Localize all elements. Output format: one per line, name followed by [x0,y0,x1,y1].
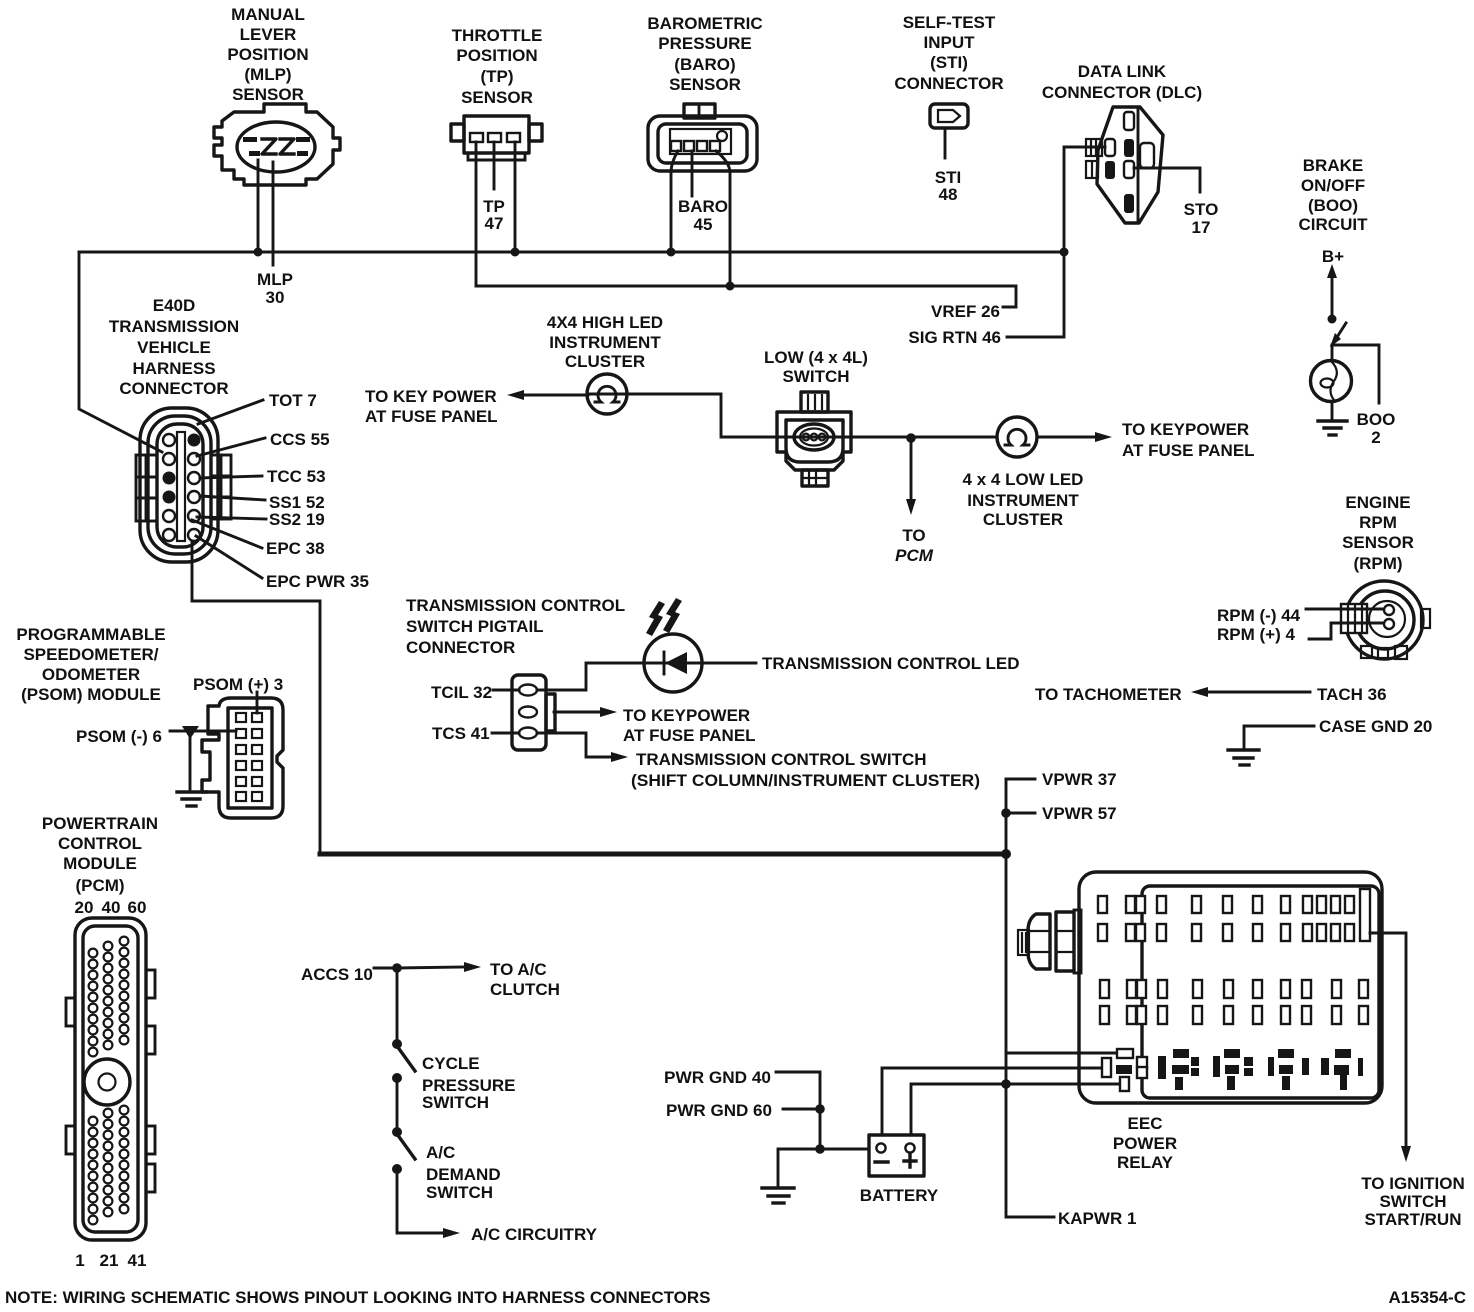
wire: junction to battery [820,1148,869,1151]
label: THROTTLE POSITION (TP) SENSOR [452,26,543,107]
svg-text:PSOM (+) 3: PSOM (+) 3 [193,675,283,694]
wire: DLC left pin feed [1007,147,1105,337]
svg-text:(RPM): (RPM) [1353,554,1402,573]
wire: PSOM (-) 6 lead [170,730,236,733]
svg-text:TO A/C: TO A/C [490,960,547,979]
connector: TCS pigtail connector [512,675,555,750]
svg-text:RPM (-) 44: RPM (-) 44 [1217,606,1301,625]
wire: bus left drop to E4OD connector [79,252,162,452]
pin: E4OD row3 right [188,472,200,484]
wire: PSOM (+) 3 drop [256,692,259,713]
wire: relay to ignition switch [1370,933,1411,1162]
svg-text:41: 41 [128,1251,147,1270]
svg-text:EPC PWR 35: EPC PWR 35 [266,572,369,591]
wire: STI stub [944,128,947,158]
label: TO A/C CLUTCH [490,960,560,999]
svg-text:(BARO): (BARO) [674,55,735,74]
svg-text:ON/OFF: ON/OFF [1301,176,1365,195]
svg-text:SENSOR: SENSOR [461,88,533,107]
wire: TOT 7 leader [198,400,263,424]
wire: TP left pin down to lower bus [475,142,478,286]
label: ENGINE RPM SENSOR (RPM) [1342,493,1414,573]
svg-text:RPM (+) 4: RPM (+) 4 [1217,625,1295,644]
svg-text:CLUSTER: CLUSTER [565,352,645,371]
svg-text:VEHICLE: VEHICLE [137,338,211,357]
wire: B+ arrow up [1327,264,1337,324]
node: battery negative junction [815,1144,825,1154]
wire: to A/C circuitry arrow [397,1169,460,1238]
connector: DLC symbol [1086,107,1163,223]
svg-text:CYCLE: CYCLE [422,1054,480,1073]
label: POWERTRAIN CONTROL MODULE (PCM) [42,814,158,917]
svg-text:BRAKE: BRAKE [1303,156,1363,175]
label: 4 x 4 LOW LED INSTRUMENT CLUSTER [963,470,1084,529]
svg-text:(TP): (TP) [480,67,513,86]
label: MANUAL LEVER POSITION (MLP) SENSOR [227,5,308,104]
svg-text:TO KEYPOWER: TO KEYPOWER [623,706,750,725]
wire: battery negative to relay [882,1068,1103,1135]
svg-text:MANUAL: MANUAL [231,5,305,24]
svg-text:TO IGNITION: TO IGNITION [1361,1174,1465,1193]
svg-text:PROGRAMMABLE: PROGRAMMABLE [16,625,165,644]
label: BAROMETRIC PRESSURE (BARO) SENSOR [647,14,762,94]
label: STO 17 [1184,200,1219,237]
svg-text:SS2 19: SS2 19 [269,510,325,529]
svg-text:PWR GND 60: PWR GND 60 [666,1101,772,1120]
svg-text:CIRCUIT: CIRCUIT [1299,215,1369,234]
svg-text:INSTRUMENT: INSTRUMENT [967,491,1079,510]
svg-text:SWITCH: SWITCH [1379,1192,1446,1211]
switch: BOO brake switch blade [1330,323,1346,347]
label: BOO 2 [1357,410,1396,447]
svg-text:DATA LINK: DATA LINK [1078,62,1167,81]
node: BARO upper bus junction [667,248,676,257]
svg-text:(BOO): (BOO) [1308,196,1358,215]
wire: VPWR vertical trunk [1006,779,1054,1217]
wire: STO 17 from DLC [1134,168,1200,192]
svg-text:SENSOR: SENSOR [1342,533,1414,552]
connector: PCM 60-pin connector [66,918,155,1240]
wire: MLP 30 stub [272,162,275,265]
wire: SS1 52 leader [200,496,265,500]
lamp: 4x4 low LED indicator [997,417,1037,457]
ground: battery ground [762,1188,794,1203]
wire: upper signal bus [79,251,1064,254]
pin: E4OD row2 right [188,453,200,465]
svg-text:AT FUSE PANEL: AT FUSE PANEL [365,407,498,426]
wire: SS2 19 leader [197,517,266,519]
svg-text:TCS 41: TCS 41 [432,724,490,743]
wire: EPC PWR run to VPWR bus [192,541,320,853]
svg-text:RELAY: RELAY [1117,1153,1174,1172]
label: PROGRAMMABLE SPEEDOMETER/ODOMETER (PSOM) MODULE [16,625,165,704]
ground: case ground [1228,750,1259,765]
switch: LOW 4x4L switch symbol [777,392,851,486]
svg-text:CONNECTOR (DLC): CONNECTOR (DLC) [1042,83,1202,102]
wire: PSOM ground drop [189,735,192,790]
svg-text:TCIL 32: TCIL 32 [431,683,492,702]
svg-text:BOO: BOO [1357,410,1396,429]
label: TO IGNITION SWITCH START/RUN [1361,1174,1465,1229]
label: LOW (4 x 4L) SWITCH [764,348,868,386]
node: DLC bus junction [1060,248,1069,257]
wire: TCC 53 leader [200,476,262,478]
wire: battery positive to relay and KAPWR [911,1084,1121,1135]
svg-text:TRANSMISSION CONTROL SWITCH: TRANSMISSION CONTROL SWITCH [636,750,927,769]
wire: RPM (-) 44 lead [1306,608,1383,611]
wire: BARO left pin to upper bus [671,151,678,252]
connector: E4OD transmission vehicle harness connector [136,408,231,562]
svg-text:PRESSURE: PRESSURE [658,34,752,53]
svg-text:NOTE: WIRING SCHEMATIC SHOWS P: NOTE: WIRING SCHEMATIC SHOWS PINOUT LOOK… [5,1288,711,1307]
svg-text:TACH 36: TACH 36 [1317,685,1387,704]
pin: PCM lower pin field [89,1106,129,1225]
lamp: brake bulb [1311,361,1352,402]
svg-text:SWITCH: SWITCH [782,367,849,386]
svg-text:LOW (4 x 4L): LOW (4 x 4L) [764,348,868,367]
node: BARO lower bus junction [726,282,735,291]
label: STI 48 [935,168,961,204]
svg-text:DEMAND: DEMAND [426,1165,501,1184]
pin: E4OD row1 left (open) [163,434,175,446]
wire: MLP pin to bus junction [257,160,260,252]
svg-text:MLP: MLP [257,270,293,289]
wire: ACCS 10 lead [374,967,397,970]
svg-text:TRANSMISSION: TRANSMISSION [109,317,239,336]
svg-text:SIG RTN 46: SIG RTN 46 [908,328,1001,347]
wire: TACH 36 arrow to tachometer [1191,687,1310,697]
node: KAPWR junction [1001,1079,1011,1089]
svg-text:CCS 55: CCS 55 [270,430,330,449]
label: TO KEYPOWER AT FUSE PANEL (right) [1122,420,1255,460]
connector: BARO sensor symbol [648,104,757,171]
svg-text:CLUTCH: CLUTCH [490,980,560,999]
svg-text:TO KEYPOWER: TO KEYPOWER [1122,420,1249,439]
pin: PCM center boss [84,1059,130,1105]
svg-text:SPEEDOMETER/: SPEEDOMETER/ [23,645,158,664]
wire: CASE GND 20 lead [1244,726,1314,749]
wire: VPWR into EEC relay [1006,1052,1117,1055]
svg-text:CONNECTOR: CONNECTOR [406,638,515,657]
wire: TCIL pin to LED [537,663,644,690]
svg-text:2: 2 [1371,428,1380,447]
wire: lamp to ground [1331,402,1334,420]
connector: engine RPM sensor symbol [1341,581,1430,659]
wire: BOO switch to lamp and BOO 2 branch [1332,345,1379,403]
svg-text:47: 47 [485,214,504,233]
svg-text:KAPWR 1: KAPWR 1 [1058,1209,1136,1228]
label: TO KEYPOWER AT FUSE PANEL (middle) [623,706,756,745]
label: DATA LINK CONNECTOR (DLC) [1042,62,1202,102]
pin: E4OD row3 left (filled) [163,472,176,485]
pin: relay slot row 1 [1098,896,1354,913]
svg-text:VPWR 57: VPWR 57 [1042,804,1117,823]
svg-text:40: 40 [102,898,121,917]
wire: ACCS drop to cycle pressure switch [396,968,399,1044]
label: TP 47 [483,197,505,233]
svg-text:(PSOM) MODULE: (PSOM) MODULE [21,685,161,704]
wire: ground stub [778,1149,820,1186]
node: VPWR bus junction [1001,849,1011,859]
svg-text:ACCS 10: ACCS 10 [301,965,373,984]
svg-text:60: 60 [128,898,147,917]
wire: middle pin keypower arrow [554,707,617,717]
node: ACCS junction [392,963,402,973]
pin: E4OD row5 left [163,510,175,522]
svg-text:START/RUN: START/RUN [1365,1210,1462,1229]
wire: lamp to LOW switch [627,394,777,437]
svg-text:E40D: E40D [153,296,196,315]
wire: TP 47 stub [493,142,496,189]
node: TO PCM junction [906,433,916,443]
svg-text:TO: TO [902,526,925,545]
svg-text:4X4 HIGH LED: 4X4 HIGH LED [547,313,663,332]
wire: lower signal bus with VREF hook [476,286,1016,307]
label: TRANSMISSION CONTROL SWITCH PIGTAIL CONNECTOR [406,596,625,657]
wire: TP right pin to upper bus [514,142,517,252]
wire: RPM (+) 4 lead [1309,623,1383,639]
svg-text:PWR GND 40: PWR GND 40 [664,1068,771,1087]
label: BARO 45 [678,197,728,234]
svg-text:CASE GND 20: CASE GND 20 [1319,717,1432,736]
svg-text:VPWR 37: VPWR 37 [1042,770,1117,789]
svg-text:TO TACHOMETER: TO TACHOMETER [1035,685,1182,704]
label: MLP 30 [257,270,293,307]
svg-text:THROTTLE: THROTTLE [452,26,543,45]
svg-text:SELF-TEST: SELF-TEST [903,13,996,32]
svg-text:SENSOR: SENSOR [669,75,741,94]
node: PSOM ground junction [182,726,199,739]
pin: relay tall slot [1360,889,1370,941]
svg-text:(PCM): (PCM) [75,876,124,895]
wire: BARO 45 stub [691,151,694,196]
wire: TO PCM arrow [906,438,916,515]
label: SELF-TEST INPUT (STI) CONNECTOR [894,13,1003,93]
svg-text:A/C CIRCUITRY: A/C CIRCUITRY [471,1225,598,1244]
label: PCM pin numbers 1 21 41 [75,1251,146,1270]
connector: relay bolt terminal [1018,910,1081,973]
label: CYCLE PRESSURE SWITCH [422,1054,516,1112]
svg-text:TCC 53: TCC 53 [267,467,326,486]
wire: VPWR 37 stub [1006,778,1035,781]
svg-text:PCM: PCM [895,546,934,565]
pin: PCM upper pin field [89,937,129,1057]
wire: TCS pin to switch arrow [537,733,628,762]
svg-text:CONNECTOR: CONNECTOR [119,379,228,398]
connector: MLP sensor symbol [214,104,340,185]
svg-text:30: 30 [266,288,285,307]
svg-text:TO KEY POWER: TO KEY POWER [365,387,497,406]
pin: relay VPWR entry slot [1117,1049,1133,1058]
ground: BOO circuit ground [1318,421,1347,435]
svg-text:VREF 26: VREF 26 [931,302,1000,321]
battery: battery symbol [869,1135,924,1176]
svg-text:4 x 4 LOW LED: 4 x 4 LOW LED [963,470,1084,489]
pin: relay lower contact pattern [1158,1049,1363,1090]
svg-text:CONNECTOR: CONNECTOR [894,74,1003,93]
svg-text:CONTROL: CONTROL [58,834,142,853]
pin: E4OD row4 right [188,491,200,503]
pin: relay coil black mark [1116,1065,1132,1074]
wire: LOW switch to junction [777,436,997,439]
node: PWR GND 60 junction [815,1104,825,1114]
wire: PWR GND 60 lead [783,1108,820,1111]
pin: PSOM pins grid [236,713,262,801]
wire: VPWR 57 stub [1006,812,1035,815]
svg-text:PSOM (-) 6: PSOM (-) 6 [76,727,162,746]
svg-text:INSTRUMENT: INSTRUMENT [549,333,661,352]
svg-text:POWER: POWER [1113,1134,1177,1153]
svg-text:CLUSTER: CLUSTER [983,510,1063,529]
svg-text:SWITCH: SWITCH [426,1183,493,1202]
pin: relay slot row 2 [1098,924,1354,941]
svg-text:17: 17 [1192,218,1211,237]
svg-text:POSITION: POSITION [227,45,308,64]
pin: relay slot row 4 [1100,1006,1368,1024]
svg-text:LEVER: LEVER [240,25,297,44]
svg-text:SENSOR: SENSOR [232,85,304,104]
svg-text:20: 20 [75,898,94,917]
svg-text:ENGINE: ENGINE [1345,493,1410,512]
node: TP bus junction [511,248,520,257]
label: EEC POWER RELAY [1113,1114,1177,1172]
wire: TCIL 32 lead [493,689,519,692]
pin: relay KAPWR slot [1120,1077,1129,1091]
svg-text:EPC 38: EPC 38 [266,539,325,558]
LED: transmission control LED [644,598,702,692]
wire: keypower arrow (right) [1037,432,1112,442]
wire: key power arrow (left) [507,390,588,400]
connector: PSOM module connector [202,698,283,818]
relay: EEC power relay box [1079,872,1382,1103]
wire: to A/C clutch arrow [397,962,481,972]
label: BRAKE ON/OFF (BOO) CIRCUIT [1299,156,1369,266]
pin: E4OD row2 left [163,453,175,465]
svg-text:ODOMETER: ODOMETER [42,665,140,684]
svg-text:(STI): (STI) [930,53,968,72]
svg-text:BAROMETRIC: BAROMETRIC [647,14,762,33]
svg-text:TOT 7: TOT 7 [269,391,317,410]
wire: EPC PWR 35 leader [196,536,262,578]
label: TRANSMISSION CONTROL SWITCH (SHIFT COLUMN/INSTRUMENT CLUSTER) [631,750,980,790]
svg-text:BATTERY: BATTERY [860,1186,939,1205]
svg-text:AT FUSE PANEL: AT FUSE PANEL [623,726,756,745]
label: E40D TRANSMISSION VEHICLE HARNESS CONNECTOR [109,296,239,398]
svg-text:TRANSMISSION CONTROL LED: TRANSMISSION CONTROL LED [762,654,1020,673]
pin: E4OD row6 left [163,529,175,541]
wire: CCS 55 leader [197,438,265,456]
svg-text:(SHIFT COLUMN/INSTRUMENT CLUST: (SHIFT COLUMN/INSTRUMENT CLUSTER) [631,771,980,790]
wire: EPC 38 leader [192,520,262,548]
svg-text:HARNESS: HARNESS [132,359,215,378]
connector: STI connector symbol [930,104,968,128]
wire: link to A/C demand switch [396,1078,399,1132]
ground: PSOM ground [177,792,206,806]
pin: E4OD row1 right (filled) [188,434,201,447]
connector: TP sensor symbol [451,116,542,160]
svg-text:EEC: EEC [1128,1114,1163,1133]
wire: LED to label [702,662,756,665]
node: MLP bus junction [254,248,263,257]
svg-text:BARO: BARO [678,197,728,216]
svg-text:AT FUSE PANEL: AT FUSE PANEL [1122,441,1255,460]
wire: TCS 41 lead [492,732,519,735]
wire: PWR GND 40 lead [776,1072,820,1149]
label: 4X4 HIGH LED INSTRUMENT CLUSTER [547,313,663,371]
svg-text:21: 21 [100,1251,119,1270]
pin: E4OD row6 right [188,529,200,541]
pin: relay double slot [1137,1057,1147,1078]
svg-text:1: 1 [75,1251,84,1270]
pin: E4OD row5 right [188,510,200,522]
wire: VPWR thick bus [320,852,1008,857]
pin: relay slot row 3 [1100,980,1368,998]
svg-text:SWITCH PIGTAIL: SWITCH PIGTAIL [406,617,544,636]
pin: E4OD row4 left (filled) [163,491,176,504]
svg-text:45: 45 [694,215,713,234]
svg-text:A15354-C: A15354-C [1389,1288,1467,1307]
svg-text:INPUT: INPUT [924,33,976,52]
lamp: 4x4 high LED indicator [587,374,627,414]
pin: relay battery negative slot [1102,1058,1111,1077]
svg-text:SWITCH: SWITCH [422,1093,489,1112]
node: VPWR 57 junction [1001,808,1011,818]
label: TO PCM [895,526,934,565]
svg-text:48: 48 [939,185,958,204]
svg-text:TRANSMISSION CONTROL: TRANSMISSION CONTROL [406,596,625,615]
svg-text:B+: B+ [1322,247,1344,266]
switch: cycle pressure switch [392,1039,415,1083]
svg-text:POWERTRAIN: POWERTRAIN [42,814,158,833]
svg-text:A/C: A/C [426,1143,455,1162]
svg-text:RPM: RPM [1359,513,1397,532]
svg-text:(MLP): (MLP) [244,65,291,84]
svg-text:MODULE: MODULE [63,854,137,873]
svg-text:POSITION: POSITION [456,46,537,65]
svg-text:STO: STO [1184,200,1219,219]
label: TO KEY POWER AT FUSE PANEL (left) [365,387,498,426]
wire: BARO right pin to lower bus [716,151,730,286]
switch: A/C demand switch [392,1127,415,1174]
label: A/C DEMAND SWITCH [426,1143,501,1202]
